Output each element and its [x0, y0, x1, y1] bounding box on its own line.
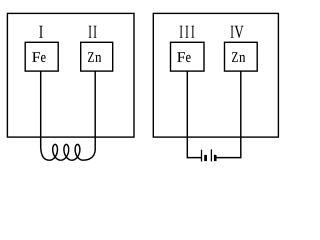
wire from electrode III down to battery: [187, 71, 201, 158]
label Zn (electrode IV): [232, 52, 245, 62]
label Fe (electrode I): [32, 52, 45, 62]
electrode I box (Fe): [25, 42, 58, 71]
label IV: [231, 26, 244, 38]
right cell container: [153, 13, 278, 137]
battery cell 1 long plate: [201, 150, 203, 162]
electrode IV box (Zn): [225, 42, 258, 71]
label Zn (electrode II): [88, 52, 101, 62]
wire from electrode IV down to battery: [216, 71, 241, 158]
battery cell 2 long plate: [210, 149, 212, 161]
electrode III box (Fe): [171, 42, 205, 71]
battery cell 1 short thick plate: [204, 155, 207, 161]
label II: [89, 26, 97, 38]
electrode II box (Zn): [81, 42, 113, 71]
label I: [39, 26, 42, 38]
wire from electrode I + coil (inductor) + wire to electrode II: [41, 71, 95, 160]
left cell container: [7, 13, 134, 137]
label Fe (electrode III): [177, 52, 190, 62]
label III: [180, 26, 194, 38]
battery cell 2 short thick plate: [214, 155, 217, 161]
